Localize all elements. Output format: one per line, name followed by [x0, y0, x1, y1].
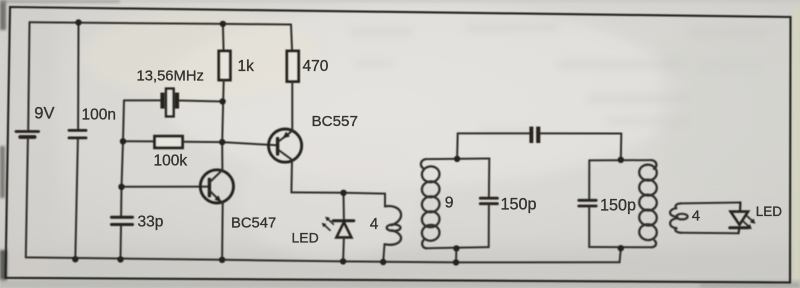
wire L1 top lead [384, 194, 386, 207]
svg-text:LED: LED [756, 204, 783, 219]
junction ground L1 [380, 259, 386, 265]
wire 100k left lead [123, 140, 155, 142]
wire ground bottom rail [26, 257, 620, 262]
wire node column 100k to base row [122, 141, 124, 187]
wire crystal left lead [124, 99, 160, 101]
svg-text:100n: 100n [82, 107, 116, 124]
junction ground BC547 emitter [219, 257, 225, 263]
wire tank1 feed vertical [456, 133, 459, 159]
wire node column crystal to 100k [123, 100, 124, 141]
junction node top rail 1k [220, 21, 226, 27]
svg-text:4: 4 [370, 216, 379, 233]
wire tank2 to ground [620, 248, 621, 262]
svg-text:9: 9 [445, 195, 454, 212]
capacitor C2 33p [112, 217, 133, 224]
LED D1 [333, 221, 354, 238]
svg-text:13,56MHz: 13,56MHz [137, 69, 204, 85]
wire L1 bottom lead [383, 244, 384, 262]
capacitor C5 coupling [529, 127, 540, 143]
wire 150p second lower lead [588, 207, 590, 247]
LED D1 emission arrows [322, 217, 334, 231]
transistor Q1 BC547 [200, 170, 233, 204]
wire 470 upper lead [291, 25, 292, 52]
wire tank1 bottom [426, 247, 489, 248]
svg-text:100k: 100k [154, 153, 188, 170]
wire tank1 to ground [455, 248, 457, 262]
wire detector loop bottom [682, 232, 739, 234]
wire BC547 emitter to ground [221, 204, 224, 260]
capacitor C4 150p [579, 200, 596, 206]
wire crystal right lead [179, 101, 222, 102]
junction tank2 bottom [618, 245, 624, 251]
wire battery negative lead [26, 139, 28, 258]
svg-text:150p: 150p [600, 197, 636, 215]
wire BC557 emitter to 470 [291, 82, 293, 131]
wire 150p second upper lead [588, 160, 590, 199]
wire BC547 collector to node B [221, 142, 223, 170]
junction node collector row LED1 [340, 190, 346, 196]
wire tank1 top [426, 158, 490, 161]
crystal X1 13,56MHz [160, 89, 179, 117]
wire 1k upper lead [222, 24, 225, 51]
wire node column base row to 33p [120, 187, 122, 216]
wire coupling row left [458, 132, 530, 134]
wire 150p first upper lead [488, 159, 490, 198]
wire C1 lower lead [75, 139, 78, 259]
capacitor C1 100n upper lead [77, 23, 79, 130]
capacitor C3 150p [480, 198, 497, 204]
wire coupling row right [541, 132, 622, 134]
junction tank2 top [618, 157, 624, 163]
junction tank1 bottom [453, 245, 459, 251]
junction ground 33p [117, 256, 123, 262]
svg-text:9V: 9V [34, 105, 54, 123]
inductor L4 4 turns [670, 203, 688, 232]
LED D2 [730, 203, 748, 234]
junction node B right [219, 139, 225, 145]
inductor L1 4 turns [385, 206, 402, 245]
wire detector loop top [681, 202, 740, 205]
junction node base row [118, 184, 124, 190]
wire collector row to coil [291, 192, 385, 193]
wire 100k right lead [183, 141, 223, 143]
transistor Q2 BC557 [269, 129, 302, 162]
junction ground C1 [72, 256, 78, 262]
svg-text:33p: 33p [138, 214, 164, 231]
battery 9V [16, 132, 39, 138]
svg-text:150p: 150p [501, 196, 537, 214]
wire BC547 base [122, 186, 210, 188]
wire 1k lower lead to node B [222, 80, 224, 142]
capacitor C1 100n [69, 130, 86, 138]
junction node A left [120, 138, 126, 144]
resistor R2 100k [155, 136, 183, 148]
svg-text:1k: 1k [238, 58, 255, 75]
junction node crystal right [219, 98, 225, 104]
wire BC557 collector down [290, 160, 293, 193]
junction ground LED1 [340, 258, 346, 264]
junction tank1 top [454, 156, 460, 162]
wire LED1 lower lead [342, 238, 345, 261]
wire LED1 upper lead [343, 193, 345, 220]
junction ground tank1 [453, 259, 459, 265]
wire top supply rail [30, 22, 292, 24]
resistor R1 1k [219, 51, 231, 80]
inductor L2 9 turns [421, 159, 441, 248]
inductor L3 [638, 160, 658, 247]
junction node top rail C1 [75, 19, 81, 25]
svg-text:470: 470 [303, 58, 329, 75]
wire battery positive lead [28, 22, 29, 130]
svg-text:4: 4 [692, 208, 700, 225]
wire tank2 feed vertical [620, 134, 623, 160]
wire tank2 top [589, 159, 651, 161]
svg-text:BC557: BC557 [312, 113, 358, 130]
wire 33p lower lead [120, 226, 123, 259]
resistor R3 470 [287, 51, 299, 82]
wire 150p first lower lead [488, 205, 490, 248]
LED D2 emission arrows [743, 216, 755, 230]
wire tank2 bottom [589, 246, 652, 248]
svg-text:LED: LED [292, 230, 319, 246]
wire BC557 base [222, 142, 277, 145]
svg-text:BC547: BC547 [231, 216, 276, 232]
